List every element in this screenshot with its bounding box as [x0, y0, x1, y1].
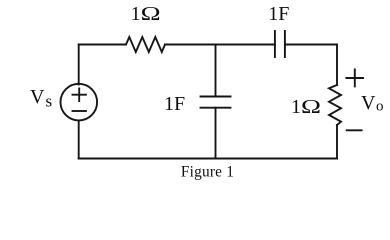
svg-text:1Ω: 1Ω — [291, 96, 321, 118]
Vo plus sign — [346, 70, 363, 87]
wire resistor R2 to bottom-right corner — [336, 125, 338, 159]
source minus sign — [73, 110, 86, 112]
wire resistor to node A — [165, 44, 216, 46]
svg-text:Figure 1: Figure 1 — [181, 164, 234, 181]
wire node A down to capacitor C1 — [215, 45, 217, 97]
capacitor C2 1F right plate — [284, 31, 286, 57]
wire right vertical down to resistor R2 — [336, 45, 338, 86]
wire left vertical (source top to corner) — [78, 45, 80, 85]
wire capacitor C1 to bottom node — [215, 108, 217, 159]
wire source bottom to bottom-left corner — [78, 121, 80, 159]
capacitor C1 1F bottom plate — [201, 107, 231, 109]
resistor R2 1ohm vertical zigzag — [329, 85, 341, 125]
wire node A to capacitor C2 — [216, 44, 275, 46]
svg-text:1Ω: 1Ω — [131, 3, 161, 25]
resistor R1 1ohm zigzag — [126, 37, 165, 52]
wire top-left horizontal — [79, 44, 126, 46]
svg-text:1F: 1F — [268, 3, 289, 25]
Vo minus sign — [347, 129, 362, 131]
svg-text:Vo: Vo — [361, 92, 383, 115]
voltage source VS circle — [61, 84, 98, 121]
svg-text:Vs: Vs — [30, 86, 52, 111]
svg-text:1F: 1F — [164, 93, 185, 115]
wire capacitor C2 to top-right corner — [285, 44, 337, 46]
capacitor C1 1F top plate — [201, 96, 231, 98]
source plus sign — [73, 88, 86, 101]
capacitor C2 1F left plate — [274, 31, 276, 57]
wire bottom horizontal — [79, 158, 337, 160]
